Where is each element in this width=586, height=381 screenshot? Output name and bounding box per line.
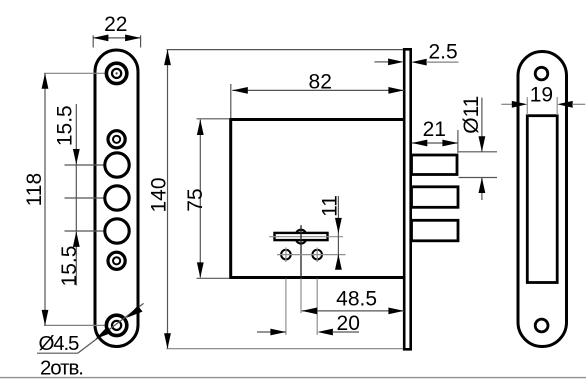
big hole 3 centerline bbox=[65, 230, 120, 232]
faceplate front view outline bbox=[95, 50, 138, 347]
screw circle left bbox=[281, 248, 291, 263]
keyhole slot bbox=[269, 230, 343, 244]
svg-text:15.5: 15.5 bbox=[54, 105, 77, 146]
svg-text:48.5: 48.5 bbox=[336, 288, 377, 311]
big hole 3 bbox=[105, 219, 129, 243]
svg-text:15.5: 15.5 bbox=[58, 246, 81, 287]
svg-text:Ø4.5: Ø4.5 bbox=[39, 332, 79, 355]
strike plate opening bbox=[527, 116, 557, 283]
extension line right screw circle bbox=[316, 279, 318, 336]
extension line left screw circle bbox=[285, 279, 287, 336]
keyhole vertical centerline bbox=[300, 225, 302, 278]
big hole 1 bbox=[105, 153, 129, 177]
dimension 21 bbox=[412, 118, 458, 153]
dimension 2.5 bbox=[374, 40, 458, 65]
screw hole top centerline bbox=[44, 72, 117, 74]
dimension 15.5 lower bbox=[58, 231, 81, 286]
ring hole upper bbox=[108, 131, 125, 148]
dimension 19 bbox=[501, 83, 585, 115]
faceplate side view bbox=[404, 49, 411, 349]
svg-text:22: 22 bbox=[104, 13, 127, 36]
strike plate outline bbox=[518, 52, 567, 347]
screw hole top bbox=[106, 63, 126, 83]
bolt 3 bbox=[412, 220, 459, 241]
dimension 82 bbox=[231, 70, 404, 118]
dimension 48.5 bbox=[302, 288, 404, 315]
dimension 20 bbox=[257, 312, 360, 335]
svg-text:2отв.: 2отв. bbox=[40, 356, 83, 379]
screw circle right bbox=[312, 248, 322, 263]
svg-text:2.5: 2.5 bbox=[429, 40, 458, 63]
screw hole bottom bbox=[106, 315, 126, 335]
dimension diameter 11 bbox=[459, 96, 497, 200]
dimension 15.5 upper bbox=[54, 104, 80, 286]
dimension 75 bbox=[184, 119, 229, 278]
svg-text:75: 75 bbox=[184, 188, 207, 211]
screw circles centerline bbox=[277, 254, 346, 256]
dimension 22 bbox=[93, 13, 141, 48]
dimension 140 bbox=[148, 50, 404, 349]
svg-text:11: 11 bbox=[319, 195, 342, 217]
screw hole bottom centerline bbox=[44, 324, 110, 326]
lock body outline bbox=[231, 120, 405, 278]
svg-text:Ø11: Ø11 bbox=[460, 96, 483, 134]
strike plate bottom hole bbox=[535, 319, 548, 332]
leader Ø4.5 2 holes bbox=[37, 303, 144, 379]
strike plate top hole bbox=[535, 67, 548, 80]
big hole 2 centerline bbox=[65, 197, 120, 199]
big hole 1 centerline bbox=[65, 164, 120, 166]
svg-text:21: 21 bbox=[423, 118, 446, 141]
svg-text:19: 19 bbox=[530, 83, 553, 106]
dimension 11 bbox=[319, 195, 342, 270]
big hole 2 bbox=[105, 186, 129, 210]
svg-text:20: 20 bbox=[337, 312, 360, 335]
dimension 118 bbox=[23, 73, 48, 325]
ring hole lower bbox=[108, 252, 125, 269]
bolt 2 bbox=[412, 187, 459, 208]
extension line keyhole center bbox=[300, 279, 302, 314]
svg-text:82: 82 bbox=[309, 70, 332, 93]
drawing frame bottom line bbox=[0, 377, 586, 379]
svg-text:140: 140 bbox=[148, 177, 171, 212]
bolt 1 bbox=[412, 155, 458, 175]
svg-text:118: 118 bbox=[23, 173, 46, 206]
